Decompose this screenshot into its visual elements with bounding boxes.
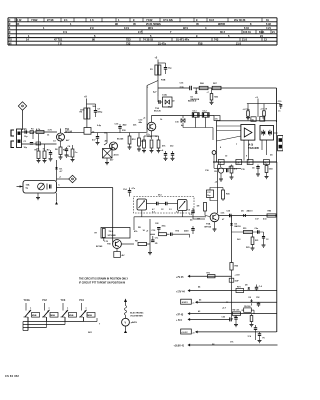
svg-text:+1.5V: +1.5V [235, 275, 241, 277]
svg-text:YC1b: YC1b [24, 299, 31, 302]
svg-text:BF194: BF194 [205, 226, 212, 229]
svg-text:21 8: 21 8 [236, 41, 242, 45]
svg-text:31 8: 31 8 [209, 18, 215, 22]
svg-text:14 9: 14 9 [124, 26, 130, 30]
svg-text:BAW62/B: BAW62/B [191, 98, 200, 101]
svg-text:4.7: 4.7 [152, 208, 155, 211]
svg-text:+8: +8 [192, 332, 194, 334]
svg-text:C57: C57 [234, 316, 237, 318]
svg-text:3.3V: 3.3V [48, 130, 53, 132]
svg-text:BC148: BC148 [117, 138, 124, 141]
svg-text:01 4F1 4Fn: 01 4F1 4Fn [176, 38, 190, 42]
svg-text:2n: 2n [278, 110, 280, 112]
svg-text:D9: D9 [249, 297, 251, 299]
svg-text:98795: 98795 [218, 22, 226, 26]
svg-text:C-4: C-4 [259, 285, 262, 288]
svg-text:F58: F58 [198, 41, 203, 45]
svg-text:YC92: YC92 [31, 18, 38, 22]
svg-text:+1: +1 [192, 303, 194, 305]
svg-text:R73: R73 [237, 286, 241, 288]
svg-text:M9B: M9B [87, 315, 92, 317]
svg-text:733: 733 [126, 41, 131, 45]
svg-text:AC/G: AC/G [114, 154, 120, 157]
svg-text:F6: F6 [263, 338, 265, 340]
svg-text:31 47a: 31 47a [158, 41, 166, 45]
svg-text:IF CIRCUIT PTT TAPEMT ON POSIT: IF CIRCUIT PTT TAPEMT ON POSITION M [79, 282, 125, 285]
svg-text:YC4: YC4 [79, 299, 84, 302]
svg-text:+16.8V 41: +16.8V 41 [174, 345, 185, 348]
svg-text:R7: R7 [95, 233, 97, 235]
svg-text:D2: D2 [172, 101, 174, 103]
svg-text:BA318: BA318 [235, 225, 242, 228]
svg-text:3.3μ: 3.3μ [180, 86, 185, 88]
svg-text:R21: R21 [255, 240, 258, 242]
svg-text:47 TS1: 47 TS1 [54, 38, 63, 42]
svg-text:+7: +7 [207, 92, 209, 94]
svg-text:BF194: BF194 [65, 131, 73, 134]
svg-text:R36: R36 [226, 194, 230, 196]
svg-text:680p: 680p [98, 111, 103, 113]
svg-text:TS: TS [9, 40, 12, 42]
svg-text:4.5Ω/1: 4.5Ω/1 [182, 301, 189, 304]
svg-text:YC3: YC3 [61, 299, 66, 302]
svg-text:TDA1035: TDA1035 [248, 146, 259, 150]
svg-text:47 9 42k: 47 9 42k [163, 18, 173, 22]
svg-text:C9: C9 [186, 231, 188, 233]
svg-text:THE CIRCUIT IS DRAWN IN POSIT: THE CIRCUIT IS DRAWN IN POSITION ONLY [79, 277, 128, 280]
svg-text:C.6: C.6 [189, 214, 192, 216]
svg-text:C6: C6 [252, 168, 254, 170]
svg-text:15A: 15A [26, 184, 30, 187]
svg-text:103 31: 103 31 [243, 30, 251, 34]
svg-text:50Ω: 50Ω [269, 169, 273, 171]
svg-text:R74: R74 [176, 230, 179, 233]
svg-text:1M: 1M [197, 206, 200, 208]
svg-text:M9B: M9B [50, 315, 55, 317]
svg-text:92 9: 92 9 [183, 26, 189, 30]
svg-text:YC42: YC42 [146, 18, 153, 22]
svg-text:TSA: TSA [206, 223, 211, 226]
svg-text:BC126: BC126 [154, 111, 162, 113]
svg-text:ELECTRONIC: ELECTRONIC [130, 313, 144, 315]
svg-text:13: 13 [248, 162, 250, 164]
svg-text:C19: C19 [278, 101, 282, 103]
svg-text:C6-2: C6-2 [202, 110, 206, 112]
svg-text:VOLTMETER: VOLTMETER [130, 315, 143, 317]
svg-text:R4 1.5k: R4 1.5k [233, 309, 241, 312]
svg-text:20v 30 33: 20v 30 33 [234, 18, 246, 22]
svg-text:C 9: C 9 [63, 30, 68, 34]
svg-text:C37: C37 [207, 192, 210, 194]
svg-text:25 81 56/92k: 25 81 56/92k [146, 22, 161, 26]
svg-text:27 98: 27 98 [47, 18, 54, 22]
svg-text:C52: C52 [256, 297, 259, 299]
svg-text:C2: C2 [266, 239, 268, 241]
svg-text:2 9: 2 9 [90, 26, 94, 30]
svg-text:1 6: 1 6 [90, 18, 94, 22]
svg-text:17.4: 17.4 [248, 335, 252, 338]
svg-text:+7F 43: +7F 43 [176, 313, 184, 316]
svg-text:C16: C16 [227, 211, 231, 213]
svg-text:4 42: 4 42 [17, 18, 23, 22]
svg-text:D4: D4 [270, 154, 272, 157]
svg-text:16.2: 16.2 [264, 162, 268, 164]
svg-text:C28: C28 [155, 223, 158, 225]
svg-text:30 3: 30 3 [220, 30, 226, 34]
svg-text:9 1: 9 1 [64, 18, 68, 22]
svg-text:+17V 44: +17V 44 [176, 290, 185, 293]
svg-text:C8: C8 [219, 162, 221, 164]
svg-text:7S3: 7S3 [126, 38, 131, 42]
svg-text:+ 5/ C: + 5/ C [176, 320, 183, 322]
svg-text:+16.5V: +16.5V [181, 332, 188, 334]
svg-text:BC149: BC149 [96, 245, 103, 248]
svg-text:CS 60 352: CS 60 352 [5, 374, 19, 378]
svg-text:3.3: 3.3 [169, 209, 172, 211]
svg-text:μAΩ/V: μAΩ/V [131, 321, 138, 324]
svg-text:C56: C56 [222, 316, 225, 318]
svg-text:74 38 03: 74 38 03 [143, 38, 153, 42]
svg-text:1.3V: 1.3V [104, 241, 109, 243]
svg-text:9 7: 9 7 [138, 30, 142, 34]
svg-text:D8: D8 [245, 285, 247, 287]
svg-text:7 8: 7 8 [58, 41, 62, 45]
svg-text:C14a: C14a [162, 94, 168, 97]
svg-text:YC2: YC2 [42, 299, 47, 302]
svg-text:C2: C2 [161, 209, 163, 211]
svg-text:21 8: 21 8 [242, 38, 248, 42]
svg-text:SP160B: SP160B [108, 235, 117, 237]
svg-text:R9 500: R9 500 [244, 306, 250, 308]
svg-text:8111: 8111 [259, 30, 265, 34]
svg-text:+7V 45: +7V 45 [176, 276, 184, 279]
svg-text:+9: +9 [146, 231, 148, 233]
svg-text:M9B: M9B [69, 315, 74, 317]
svg-text:6 10: 6 10 [244, 26, 250, 30]
svg-text:98 9: 98 9 [148, 26, 154, 30]
svg-text:MI: MI [9, 43, 12, 45]
svg-text:6 92: 6 92 [266, 22, 272, 26]
svg-text:C6: C6 [188, 210, 190, 212]
svg-text:4k7: 4k7 [122, 254, 125, 257]
svg-text:R06: R06 [235, 266, 239, 268]
svg-text:M9B: M9B [32, 315, 37, 317]
svg-text:R1B: R1B [161, 80, 166, 82]
svg-text:+1: +1 [59, 177, 61, 179]
svg-text:AA119: AA119 [247, 210, 253, 213]
svg-text:4 21: 4 21 [266, 26, 272, 30]
svg-text:743: 743 [214, 38, 219, 42]
svg-text:55: 55 [252, 120, 254, 122]
